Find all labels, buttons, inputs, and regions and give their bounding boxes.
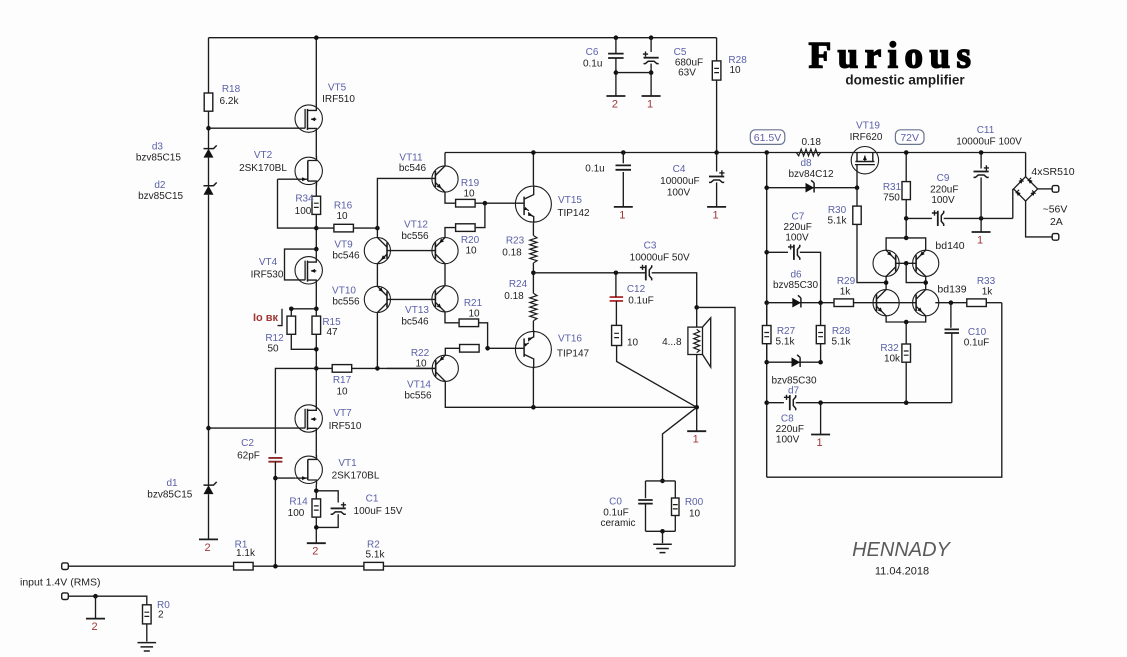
- junction R31 rail: [904, 150, 909, 155]
- svg-text:R32: R32: [880, 343, 899, 354]
- svg-text:0.18: 0.18: [801, 137, 821, 148]
- svg-text:bd139: bd139: [937, 284, 966, 296]
- svg-text:10: 10: [465, 246, 477, 257]
- wire C5 leg: [650, 38, 652, 52]
- svg-text:C12: C12: [627, 284, 646, 295]
- resistor R24: [530, 293, 537, 321]
- junction C0 bottom: [660, 529, 665, 534]
- svg-text:0.1uF: 0.1uF: [603, 508, 629, 519]
- resistor R20: [456, 224, 476, 232]
- wire VT11 collector: [444, 153, 446, 166]
- svg-text:0.1uF: 0.1uF: [628, 296, 654, 307]
- wire R17 left arm: [275, 368, 316, 453]
- capacitor C8: [767, 402, 784, 404]
- junction d8 left: [764, 185, 769, 190]
- svg-text:5.1k: 5.1k: [828, 216, 848, 227]
- wire d2 to d1: [208, 195, 210, 485]
- wire C4 bottom: [716, 182, 718, 207]
- junction C6 rail: [614, 35, 619, 40]
- wire R20 jog: [476, 203, 485, 227]
- wire R24 to VT16: [532, 321, 534, 332]
- junction C11 rail: [979, 150, 984, 155]
- wire R29 right: [854, 302, 877, 304]
- svg-text:10000uF 100V: 10000uF 100V: [956, 136, 1022, 147]
- wire VT15 emitter: [532, 223, 534, 235]
- svg-text:IRF530: IRF530: [251, 270, 284, 281]
- diode d1: [204, 485, 214, 494]
- junction output star: [694, 405, 699, 410]
- svg-text:d1: d1: [166, 478, 178, 489]
- junction C12 tap: [614, 271, 619, 276]
- junction VT10 collector node: [375, 366, 380, 371]
- svg-text:6.2k: 6.2k: [220, 96, 240, 107]
- node 61.5V bubble: [750, 130, 785, 145]
- svg-text:5.1k: 5.1k: [776, 337, 796, 348]
- wire C12 to R: [615, 301, 617, 326]
- wire R2 to feedback: [383, 565, 735, 567]
- svg-text:220uF: 220uF: [776, 424, 804, 435]
- wire bd140L emitter: [885, 276, 887, 289]
- junction R12/R15 bottom: [314, 347, 319, 352]
- resistor R29: [834, 299, 854, 307]
- svg-text:10k: 10k: [884, 354, 901, 365]
- pin 2 under R14: [307, 542, 326, 544]
- svg-text:R2: R2: [367, 539, 380, 550]
- svg-text:61.5V: 61.5V: [754, 132, 781, 144]
- wire Io annotation: [278, 309, 283, 326]
- transistor bd140 left: [873, 250, 899, 276]
- junction VT16 emitter node: [531, 405, 536, 410]
- wire rail to bridge: [1025, 153, 1027, 177]
- diode d3: [204, 149, 214, 158]
- svg-text:C4: C4: [673, 164, 686, 175]
- pin 1 speaker: [687, 430, 706, 432]
- wire R28 top leg: [716, 38, 718, 61]
- svg-text:C9: C9: [937, 173, 950, 184]
- svg-text:R33: R33: [977, 276, 996, 287]
- junction R21/R22/VT16: [485, 346, 490, 351]
- svg-text:10: 10: [336, 211, 348, 222]
- svg-text:2SK170BL: 2SK170BL: [332, 471, 380, 482]
- wire VT7 gate line: [209, 427, 306, 429]
- svg-text:2SK170BL: 2SK170BL: [239, 163, 287, 174]
- junction C9 tap: [904, 216, 909, 221]
- junction PS left rail: [764, 150, 769, 155]
- svg-text:100V: 100V: [931, 195, 955, 206]
- svg-text:bc546: bc546: [399, 163, 427, 174]
- svg-text:R28: R28: [832, 326, 851, 337]
- svg-text:bc546: bc546: [332, 251, 360, 262]
- junction C6/C5 tie: [614, 70, 619, 75]
- wire R18 to d3: [208, 111, 210, 148]
- wire VT9 collector: [376, 228, 378, 238]
- wire input gnd line: [68, 596, 147, 605]
- wire C2 bottom: [274, 462, 276, 567]
- svg-text:1: 1: [817, 437, 823, 449]
- svg-text:TIP142: TIP142: [557, 208, 590, 219]
- svg-text:bzv85C30: bzv85C30: [773, 280, 818, 291]
- svg-text:10: 10: [729, 65, 741, 76]
- svg-text:IRF620: IRF620: [850, 132, 883, 143]
- svg-text:VT13: VT13: [405, 305, 429, 316]
- diode d7: [792, 357, 801, 367]
- svg-text:1: 1: [647, 99, 653, 111]
- junction input gnd: [93, 594, 98, 599]
- svg-text:R00: R00: [685, 497, 704, 508]
- wire d7 line: [767, 361, 821, 363]
- svg-text:100V: 100V: [785, 233, 809, 244]
- svg-text:2: 2: [612, 99, 618, 111]
- terminal AC1: [1052, 186, 1059, 193]
- junction bd139 bottom mid: [904, 320, 909, 325]
- svg-text:bc546: bc546: [401, 317, 429, 328]
- resistor R00: [674, 481, 676, 498]
- transistor bd140 right: [913, 250, 939, 276]
- junction C8/pin: [818, 400, 823, 405]
- svg-text:100V: 100V: [776, 435, 800, 446]
- resistor 0.18: [796, 149, 820, 156]
- wire R32 leg: [905, 322, 907, 344]
- svg-text:VT7: VT7: [333, 408, 352, 419]
- svg-text:bzv85C15: bzv85C15: [136, 153, 181, 164]
- capacitor 0.1u: [616, 165, 632, 169]
- svg-text:Furious: Furious: [809, 36, 978, 77]
- svg-text:47: 47: [326, 327, 338, 338]
- transistor VT7: [295, 405, 322, 432]
- svg-text:d2: d2: [154, 180, 166, 191]
- junction R14/C1 bottom: [314, 525, 319, 530]
- transistor VT13: [432, 286, 458, 312]
- svg-text:R12: R12: [265, 333, 284, 344]
- wire node to VT4: [315, 249, 317, 257]
- resistor R15: [312, 316, 321, 334]
- wire R19 right: [475, 202, 524, 204]
- resistor R18: [204, 93, 213, 111]
- svg-text:220uF: 220uF: [784, 222, 812, 233]
- wire VT9-VT10 emitters: [376, 264, 378, 287]
- svg-text:10: 10: [689, 509, 701, 520]
- wire R14 bottom: [315, 517, 317, 543]
- wire R17 line: [316, 367, 332, 369]
- svg-text:Iо вк: Iо вк: [253, 312, 279, 324]
- resistor R16: [334, 224, 354, 232]
- svg-text:bzv84C12: bzv84C12: [788, 169, 833, 180]
- wire C1 top arm: [316, 491, 338, 503]
- wire bd140R emitter: [925, 276, 927, 289]
- svg-text:0.1u: 0.1u: [585, 164, 604, 175]
- svg-text:10000uF: 10000uF: [660, 176, 699, 187]
- junction source node: [314, 307, 319, 312]
- resistor R0: [143, 605, 152, 624]
- wire zobel2 diag: [663, 407, 697, 481]
- svg-text:VT19: VT19: [856, 120, 880, 131]
- resistor R28b: [820, 303, 822, 326]
- resistor R12: [287, 316, 296, 334]
- junction d6/C7/R28b: [818, 300, 823, 305]
- wire speaker bottom: [696, 355, 698, 432]
- svg-text:0.18: 0.18: [502, 248, 522, 259]
- wire R33 right: [986, 302, 1002, 304]
- resistor R19: [456, 199, 476, 207]
- wire VT2 gate loop: [278, 179, 317, 228]
- svg-text:10: 10: [336, 387, 348, 398]
- terminal AC2: [1052, 234, 1059, 241]
- svg-text:50: 50: [267, 344, 279, 355]
- wire 0.1u leg: [622, 153, 624, 207]
- svg-text:1: 1: [977, 235, 983, 247]
- svg-text:5.1k: 5.1k: [366, 550, 386, 561]
- svg-text:VT15: VT15: [558, 195, 582, 206]
- wire R21 right: [479, 323, 488, 349]
- wire C0 box bottom: [646, 530, 676, 532]
- svg-text:R18: R18: [222, 84, 241, 95]
- wire d3 to d2: [208, 158, 210, 186]
- svg-text:C6: C6: [586, 47, 599, 58]
- junction R16/VT9/VT11: [375, 226, 380, 231]
- svg-text:750: 750: [883, 193, 900, 204]
- svg-text:1k: 1k: [840, 287, 852, 298]
- junction C5 rail: [649, 35, 654, 40]
- svg-text:4...8: 4...8: [662, 337, 682, 348]
- svg-text:VT1: VT1: [338, 458, 357, 469]
- wire VT12-VT13 collectors: [444, 264, 446, 286]
- svg-text:1k: 1k: [982, 287, 994, 298]
- speaker LS: [688, 327, 703, 354]
- svg-text:VT12: VT12: [404, 220, 428, 231]
- resistor R2: [364, 562, 384, 570]
- wire C3 right: [652, 273, 697, 327]
- svg-text:5.1k: 5.1k: [832, 337, 852, 348]
- resistor R32: [902, 344, 911, 362]
- wire VT7-VT1: [315, 432, 317, 456]
- wire bd140 bases down: [906, 263, 926, 282]
- svg-text:100: 100: [288, 508, 305, 519]
- wire VT9 base to VT12: [387, 250, 435, 252]
- junction VT7 gate tap: [206, 426, 211, 431]
- svg-text:62pF: 62pF: [237, 451, 260, 462]
- svg-text:bc556: bc556: [404, 391, 432, 402]
- junction R12 top: [289, 307, 294, 312]
- wire bd139 right out: [935, 302, 968, 304]
- junction C4 rail: [714, 150, 719, 155]
- svg-text:1: 1: [693, 434, 699, 446]
- svg-text:R22: R22: [411, 348, 430, 359]
- transistor bd139 right: [913, 290, 939, 316]
- wire bridge right to term: [1038, 188, 1053, 190]
- junction C8 left: [764, 400, 769, 405]
- diode bridge 4xSR510: [1014, 177, 1038, 201]
- resistor R22: [460, 345, 480, 353]
- svg-text:HENNADY: HENNADY: [852, 539, 951, 561]
- wire R12 bottom: [291, 334, 316, 349]
- junction output mid: [531, 271, 536, 276]
- resistor R34: [312, 196, 321, 214]
- node 72V bubble: [895, 130, 924, 145]
- junction bd140 bases: [904, 261, 909, 266]
- svg-text:R23: R23: [506, 236, 525, 247]
- wire C4 leg: [716, 153, 718, 172]
- svg-text:R24: R24: [509, 279, 528, 290]
- svg-text:C10: C10: [968, 327, 987, 338]
- junction d7 left: [764, 360, 769, 365]
- wire to R12 top: [291, 309, 316, 316]
- svg-text:C8: C8: [781, 414, 794, 425]
- svg-text:R20: R20: [461, 235, 480, 246]
- wire bridge bottom to term: [1026, 201, 1053, 237]
- transistor VT15: [515, 186, 551, 222]
- junction VT1 gate node: [273, 476, 278, 481]
- transistor VT5: [295, 105, 322, 132]
- svg-text:VT11: VT11: [399, 153, 423, 164]
- diode d8: [806, 183, 815, 193]
- wire C5 bottom: [650, 64, 652, 96]
- resistor R14: [312, 499, 321, 517]
- svg-text:C0: C0: [609, 497, 622, 508]
- svg-text:R14: R14: [289, 497, 308, 508]
- wire R22 left: [445, 348, 459, 355]
- junction C7 left: [764, 250, 769, 255]
- junction bd emitters right: [923, 280, 928, 285]
- wire R16 right: [353, 227, 377, 229]
- junction R33/C10: [949, 300, 954, 305]
- wire PS bottom loop: [767, 303, 1002, 478]
- wire VT11 emitter: [445, 192, 456, 203]
- junction R19/R20/VT15: [483, 201, 488, 206]
- svg-text:VT5: VT5: [328, 83, 347, 94]
- wire C6-C5 tie: [616, 72, 651, 74]
- svg-text:0.18: 0.18: [504, 291, 524, 302]
- capacitor C10: [950, 303, 952, 328]
- junction bd140 top: [904, 236, 909, 241]
- wire R30 bottom: [857, 224, 886, 282]
- wire R16 line: [316, 227, 334, 229]
- junction d7 right: [818, 360, 823, 365]
- wire VT13 emitter: [445, 312, 460, 323]
- wire bridge left leg: [1012, 189, 1014, 219]
- svg-text:TIP147: TIP147: [557, 349, 590, 360]
- capacitor C12: [610, 297, 624, 301]
- svg-text:10: 10: [468, 309, 480, 320]
- rail 61.5V line: [445, 152, 1026, 154]
- svg-text:VT14: VT14: [407, 380, 431, 391]
- wire VT5-VT2: [315, 132, 317, 157]
- svg-text:ceramic: ceramic: [600, 518, 635, 529]
- svg-text:63V: 63V: [678, 68, 696, 79]
- junction input node: [273, 564, 278, 569]
- wire PS left line: [766, 153, 768, 478]
- transistor bd139 left: [873, 290, 899, 316]
- capacitor C7: [767, 251, 788, 253]
- wire C6 bottom: [615, 73, 617, 96]
- wire bd139 bottoms: [886, 316, 926, 322]
- svg-text:C3: C3: [644, 241, 657, 252]
- svg-text:10: 10: [627, 338, 639, 349]
- wire VT11 base drop: [377, 178, 435, 228]
- wire C12 top: [615, 273, 617, 297]
- svg-text:2: 2: [312, 546, 318, 558]
- svg-text:bzv85C15: bzv85C15: [147, 489, 192, 500]
- svg-text:C1: C1: [366, 494, 379, 505]
- svg-text:VT2: VT2: [254, 150, 273, 161]
- pin 1 under C4: [707, 206, 726, 208]
- svg-text:2A: 2A: [1050, 216, 1063, 228]
- svg-text:C7: C7: [792, 212, 805, 223]
- svg-text:10000uF 50V: 10000uF 50V: [630, 253, 690, 264]
- wire top rail: [209, 37, 717, 39]
- capacitor C6: [608, 54, 624, 58]
- capacitor C9: [906, 217, 932, 219]
- capacitor C1: [331, 507, 346, 509]
- svg-text:100: 100: [295, 206, 312, 217]
- junction speaker top: [694, 305, 699, 310]
- wire zobel diag: [617, 346, 697, 408]
- wire VT16 emitter: [532, 368, 534, 408]
- pin 2 left column: [199, 538, 218, 540]
- wire VT12 emitter: [445, 228, 456, 238]
- junction 0.1u rail: [621, 150, 626, 155]
- wire VT1 gate: [275, 477, 295, 479]
- svg-text:1: 1: [713, 209, 719, 221]
- wire C6 leg: [615, 38, 617, 73]
- ground under R0: [146, 624, 148, 642]
- ground under C0: [662, 531, 664, 543]
- transistor VT12: [432, 238, 458, 264]
- capacitor C0: [638, 500, 653, 504]
- resistor 10 zobel: [612, 325, 622, 345]
- resistor R21: [459, 319, 479, 327]
- wire bd139 base link: [877, 302, 917, 304]
- junction C0 top: [660, 479, 665, 484]
- transistor VT10: [364, 286, 390, 312]
- wire VT16 base: [488, 347, 525, 349]
- capacitor C2: [268, 458, 282, 462]
- resistor R30: [853, 206, 861, 224]
- svg-text:11.04.2018: 11.04.2018: [875, 566, 929, 578]
- svg-text:10: 10: [463, 189, 475, 200]
- junction R18 bottom: [206, 126, 211, 131]
- capacitor C4: [709, 176, 724, 178]
- svg-text:R34: R34: [295, 194, 314, 205]
- svg-text:R19: R19: [461, 178, 480, 189]
- svg-text:4xSR510: 4xSR510: [1031, 166, 1074, 178]
- svg-text:IRF510: IRF510: [329, 421, 362, 432]
- transistor VT14: [432, 355, 458, 381]
- junction C11 bottom: [979, 216, 984, 221]
- resistor R33: [967, 299, 987, 307]
- svg-text:~56V: ~56V: [1043, 204, 1068, 216]
- svg-text:d7: d7: [788, 385, 800, 396]
- svg-text:VT9: VT9: [334, 240, 353, 251]
- pin 2 input: [95, 596, 97, 618]
- capacitor C3: [645, 265, 647, 280]
- wire VT10 base to VT13: [387, 298, 435, 300]
- pin 1 under C11: [980, 218, 982, 232]
- junction R17 left node: [314, 366, 319, 371]
- svg-text:bc556: bc556: [332, 297, 360, 308]
- resistor R17: [332, 365, 352, 373]
- terminal input gnd: [62, 593, 69, 600]
- transistor VT9: [364, 238, 390, 264]
- diode d6: [792, 298, 801, 308]
- svg-text:1: 1: [619, 209, 625, 221]
- junction R34 bottom: [314, 226, 319, 231]
- wire VT10 collector: [376, 313, 378, 369]
- transistor VT4: [295, 257, 322, 284]
- wire VT1 source: [315, 485, 317, 499]
- wire R23 to out: [532, 263, 534, 293]
- wire R1 to R2: [253, 565, 364, 567]
- wire R34 to node: [315, 214, 317, 249]
